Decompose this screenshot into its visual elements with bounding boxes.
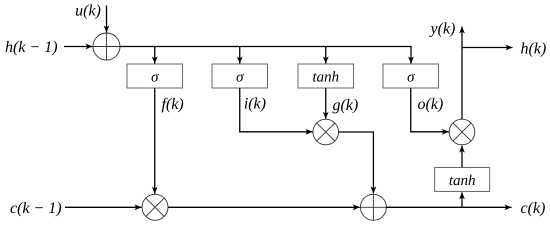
wire branch to tanh1 — [325, 47, 327, 64]
wire branch up to tanh2 — [461, 192, 463, 207]
gate box tanh2 rect — [435, 167, 490, 191]
label f(k) — [162, 98, 184, 113]
gate box sigma1 rect — [127, 64, 183, 88]
label i(k) — [245, 97, 266, 112]
gate box sigma3 rect — [383, 64, 439, 88]
wire branch to sigma1 — [154, 47, 156, 64]
label sigma3 — [407, 74, 414, 82]
wire i(k) — [240, 88, 313, 132]
label h(k) — [521, 42, 546, 57]
add node bottom — [360, 194, 386, 220]
gate box sigma2 rect — [212, 64, 268, 88]
multiply node output right — [449, 119, 475, 145]
label c(k-1) — [10, 202, 61, 217]
wire output vertical to y(k) — [461, 27, 463, 120]
wire tanh2 to output multiply — [461, 146, 463, 168]
label g(k) — [333, 99, 358, 114]
label o(k) — [418, 98, 443, 113]
wire u(k) input — [106, 6, 108, 33]
wire o(k) — [411, 88, 449, 132]
label u(k) — [76, 4, 100, 19]
wire h(k-1) input — [64, 46, 93, 48]
multiply node mid — [313, 119, 339, 145]
wire c(k-1) input — [65, 206, 142, 208]
wire bottom bus left — [168, 206, 360, 208]
wire g(k) — [325, 88, 327, 119]
label sigma2 — [236, 74, 243, 82]
multiply node forget bottom left — [142, 194, 168, 220]
wire mid multiply to bottom add — [339, 132, 374, 194]
wire h(k) output — [462, 47, 513, 49]
add node top — [93, 33, 120, 60]
wire branch to sigma2 — [239, 47, 241, 64]
label h(k-1) — [6, 41, 57, 56]
gate box tanh1 rect — [298, 64, 354, 88]
wire f(k) — [154, 88, 156, 194]
label tanh1 — [313, 71, 338, 82]
label sigma1 — [151, 74, 158, 82]
label tanh2 — [450, 175, 475, 186]
label c(k) — [521, 202, 545, 217]
wire top bus — [120, 47, 411, 64]
wire c(k) output — [386, 206, 511, 208]
label y(k) — [429, 22, 455, 37]
